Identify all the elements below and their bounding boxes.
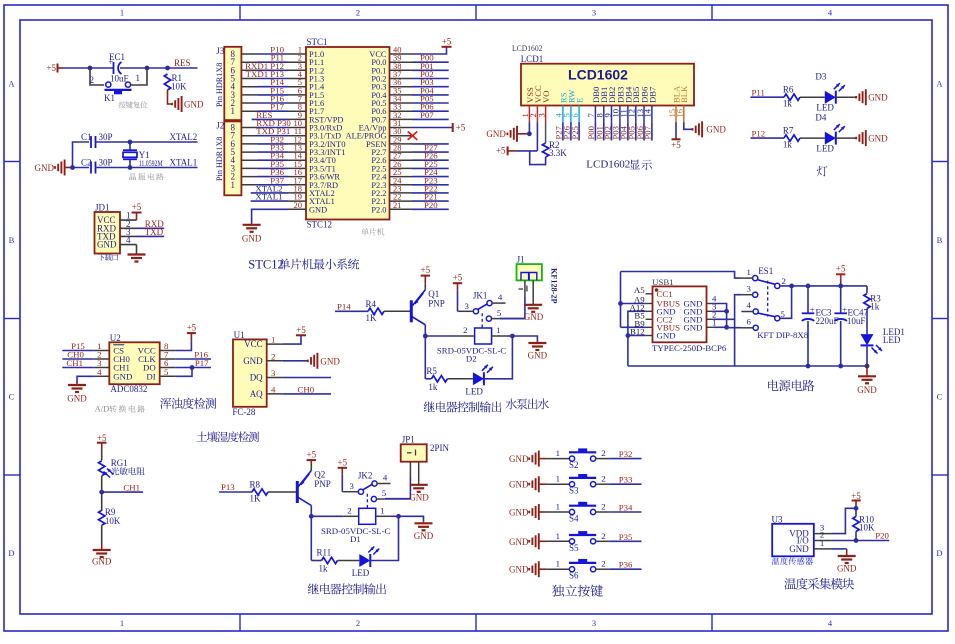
- wire R7 to LED: [800, 137, 825, 139]
- LCD module LCD1: [521, 54, 694, 106]
- svg-text:RG1: RG1: [111, 458, 128, 468]
- ground (U3): [846, 554, 848, 556]
- power port +5 (photoresistor): [97, 433, 107, 450]
- wire gnd to S4: [539, 511, 547, 513]
- svg-text:LCD1: LCD1: [521, 54, 544, 64]
- svg-text:GND: GND: [509, 537, 529, 547]
- svg-text:CC1: CC1: [657, 289, 673, 299]
- svg-text:+5: +5: [836, 263, 846, 273]
- net P35 wire: [596, 540, 610, 542]
- wire gnd to S6: [539, 568, 547, 570]
- wire BLK pin16 to ground: [684, 122, 692, 129]
- svg-text:+5: +5: [132, 202, 142, 212]
- wire JP1 pin1 to switch pin5: [409, 462, 411, 477]
- svg-text:2: 2: [601, 531, 605, 541]
- power port +5 (LCD VCC): [496, 146, 516, 156]
- ground (lamp D3): [856, 89, 888, 105]
- resistor R6 1k: [783, 85, 800, 109]
- svg-text:GND: GND: [657, 331, 676, 341]
- power port +5 (JD1 pin1): [132, 202, 142, 220]
- svg-text:2: 2: [90, 75, 95, 85]
- svg-text:USB1: USB1: [652, 277, 674, 287]
- svg-text:2: 2: [782, 276, 786, 286]
- wire/net TXD: [137, 235, 165, 237]
- svg-text:40: 40: [393, 45, 402, 55]
- net P15 wire: [62, 350, 93, 352]
- ground (J1 pin2): [532, 280, 534, 302]
- net P14 wire: [335, 310, 368, 312]
- svg-text:Q2: Q2: [314, 470, 325, 480]
- svg-text:C2: C2: [81, 158, 92, 168]
- photoresistor RG1 光敏电阻: [99, 458, 145, 478]
- svg-text:4: 4: [97, 367, 102, 377]
- svg-text:1: 1: [556, 474, 560, 484]
- svg-text:5: 5: [382, 488, 387, 498]
- label 温度传感器: [772, 558, 780, 565]
- capacitor EC1 10uF: [108, 52, 128, 84]
- bottom gnd rail: [628, 365, 867, 367]
- resistor R3 1k: [866, 286, 868, 293]
- svg-text:1k: 1k: [428, 382, 438, 392]
- svg-text:+5: +5: [296, 325, 306, 335]
- svg-text:+5: +5: [338, 457, 348, 467]
- net CH1 wire: [102, 491, 144, 493]
- svg-text:S4: S4: [569, 514, 579, 524]
- svg-text:2: 2: [356, 8, 360, 18]
- svg-text:CH1: CH1: [123, 482, 140, 492]
- title 继电器控制输出 (pump): [424, 402, 435, 413]
- ground (reset): [172, 96, 204, 112]
- svg-text:GND: GND: [868, 93, 888, 103]
- wire VBUS(A9) loop to ES1 pin1: [621, 303, 646, 305]
- switch JK1: [458, 290, 505, 328]
- svg-text:LCD1602: LCD1602: [568, 67, 628, 83]
- svg-text:GND: GND: [113, 371, 132, 381]
- svg-text:6: 6: [747, 317, 752, 327]
- svg-text:GND: GND: [524, 312, 544, 322]
- resistor R8 1K: [250, 480, 269, 504]
- svg-text:10uF: 10uF: [847, 316, 866, 326]
- svg-text:TYPEC-250D-BCP6: TYPEC-250D-BCP6: [652, 343, 727, 353]
- svg-text:JK2: JK2: [358, 471, 373, 481]
- net P32 wire: [596, 458, 610, 460]
- wire R8 to Q2 base: [268, 491, 297, 493]
- ground (key S5): [509, 533, 539, 549]
- LED D3: [815, 72, 844, 113]
- svg-text:P12: P12: [752, 129, 766, 139]
- power port +5 (Q2 emitter): [310, 464, 312, 471]
- wire node down to LED row: [310, 516, 312, 560]
- USB connector USB1 TYPEC-250D-BCP6: [630, 277, 727, 353]
- svg-text:GND: GND: [868, 134, 888, 144]
- ground (key S4): [509, 504, 539, 520]
- resistor R11 1k: [317, 548, 338, 574]
- wire switch pin5 to connector: [500, 318, 525, 320]
- svg-text:JK1: JK1: [473, 290, 488, 300]
- svg-text:PNP: PNP: [428, 298, 445, 308]
- svg-text:1k: 1k: [870, 301, 880, 311]
- switch JK2: [343, 471, 390, 508]
- transistor Q1 PNP: [411, 289, 445, 325]
- svg-text:DQ: DQ: [250, 373, 263, 383]
- title 水泵出水: [506, 398, 517, 409]
- title 浑浊度检测: [160, 398, 171, 409]
- power port +5 (MCU VCC pin40): [412, 48, 447, 55]
- svg-text:P07: P07: [420, 110, 434, 120]
- op IC U: STC12 MCU: [306, 37, 390, 230]
- svg-text:GND: GND: [509, 508, 529, 518]
- svg-text:KF128-2P: KF128-2P: [550, 268, 559, 303]
- svg-text:+5: +5: [671, 140, 681, 150]
- label 单片机: [361, 228, 368, 235]
- wire C2 to XTAL1: [96, 167, 198, 169]
- pushbutton S5: [569, 531, 596, 553]
- svg-text:3: 3: [536, 113, 546, 117]
- svg-text:11.0592M: 11.0592M: [139, 158, 163, 168]
- svg-text:R5: R5: [426, 366, 437, 376]
- wire top to ES1 pin1: [621, 272, 742, 279]
- svg-text:B: B: [9, 235, 15, 245]
- svg-text:GND: GND: [528, 351, 548, 361]
- ground (crystal): [35, 160, 73, 176]
- svg-text:Pin HDR1X8: Pin HDR1X8: [215, 63, 224, 107]
- power port +5 (U3): [851, 491, 861, 508]
- connector J3 Pin HDR1X8: [215, 46, 258, 120]
- svg-text:1: 1: [231, 180, 236, 190]
- svg-text:GND: GND: [509, 480, 529, 490]
- svg-text:A/D: A/D: [95, 404, 110, 414]
- svg-text:AQ: AQ: [250, 389, 263, 399]
- resistor R1 10K: [164, 73, 187, 92]
- net P36 wire: [596, 568, 610, 570]
- svg-text:RES: RES: [174, 58, 191, 68]
- wire R4 to Q1 base: [384, 310, 411, 312]
- ground (coil): [399, 516, 424, 521]
- wires USB right GNDs to vertical: [714, 304, 742, 328]
- svg-text:DI: DI: [146, 371, 155, 381]
- svg-text:3: 3: [592, 618, 596, 628]
- LCD pin stubs + numbers: [520, 106, 684, 123]
- svg-text:S3: S3: [569, 486, 579, 496]
- svg-text:C1: C1: [81, 132, 92, 142]
- svg-text:10K: 10K: [105, 516, 121, 526]
- ground (LCD BLK): [693, 121, 727, 137]
- LED LED: [465, 365, 493, 397]
- svg-text:JP1: JP1: [402, 435, 415, 445]
- svg-text:P33: P33: [619, 475, 633, 485]
- net RES wire: [252, 118, 288, 120]
- connector J1 KF128-2P: [517, 255, 559, 304]
- wire R2 bottom loop to +5 line: [530, 151, 546, 165]
- svg-text:E: E: [575, 98, 585, 103]
- wire LED to ground: [836, 137, 856, 139]
- wire U1 GND: [283, 360, 308, 362]
- svg-text:P20: P20: [424, 200, 438, 210]
- ground (key S6): [509, 561, 539, 577]
- svg-text:LCD1602: LCD1602: [586, 159, 630, 171]
- svg-text:4: 4: [271, 384, 276, 394]
- svg-text:R11: R11: [317, 548, 332, 558]
- title 土壤湿度检测: [197, 431, 208, 441]
- wire PSEN pin29: [412, 143, 449, 145]
- svg-text:P17: P17: [195, 358, 209, 368]
- resistor R7 1k: [783, 126, 800, 150]
- svg-text:GND: GND: [789, 544, 809, 554]
- svg-text:3: 3: [349, 481, 354, 491]
- wire +5 to RG1: [101, 450, 103, 460]
- svg-text:P11: P11: [752, 88, 765, 98]
- svg-text:D: D: [8, 548, 14, 558]
- svg-text:6: 6: [570, 113, 580, 118]
- wire vertical VBUS join: [620, 272, 622, 328]
- svg-text:A: A: [8, 79, 15, 89]
- svg-text:GND: GND: [35, 163, 55, 173]
- svg-text:A5: A5: [634, 285, 645, 295]
- svg-text:2: 2: [601, 448, 605, 458]
- wire to LED: [311, 560, 321, 562]
- svg-text:2: 2: [463, 325, 467, 335]
- net CH1 wire: [62, 367, 93, 369]
- wires P00-P07: [412, 53, 449, 120]
- ground (coil): [512, 336, 537, 341]
- svg-text:1: 1: [556, 559, 560, 569]
- crystal Y1 11.0592M: [123, 142, 163, 168]
- svg-text:1: 1: [820, 538, 824, 548]
- svg-text:5: 5: [164, 367, 169, 377]
- relay coil D2 SRD-05VDC-SL-C: [437, 325, 507, 364]
- wire C1 to XTAL2: [96, 141, 198, 143]
- svg-text:GND: GND: [409, 492, 429, 502]
- svg-text:2PIN: 2PIN: [430, 443, 450, 453]
- svg-text:VO: VO: [541, 91, 551, 103]
- wire node to coil pin2: [311, 515, 343, 517]
- svg-text:P2.0: P2.0: [371, 205, 386, 214]
- svg-text:1: 1: [136, 73, 141, 83]
- svg-text:1K: 1K: [366, 313, 378, 323]
- net P33 wire: [596, 483, 610, 485]
- svg-text:2: 2: [601, 559, 605, 569]
- svg-text:14: 14: [643, 108, 653, 117]
- wire gnd to S2: [539, 458, 547, 460]
- wire J1 pin1 to switch (via pin5 net): [524, 280, 526, 297]
- svg-text:+5: +5: [97, 433, 107, 443]
- svg-text:1: 1: [556, 531, 560, 541]
- svg-text:GND: GND: [683, 323, 702, 333]
- wire ES1 pin3 to gnd rail: [735, 295, 742, 366]
- svg-text:GND: GND: [486, 129, 506, 139]
- pushbutton S4: [569, 502, 596, 524]
- transistor Q2 PNP: [297, 470, 331, 506]
- sensor U1 FC-28: [232, 330, 283, 417]
- svg-text:P35: P35: [619, 532, 633, 542]
- svg-text:1k: 1k: [783, 99, 793, 109]
- wire VSS pin1 to ground: [528, 122, 530, 134]
- svg-text:+5: +5: [46, 63, 56, 73]
- svg-text:KFT DIP-8X8: KFT DIP-8X8: [757, 330, 809, 340]
- svg-text:R4: R4: [366, 299, 377, 309]
- svg-text:GND: GND: [309, 205, 327, 214]
- net P12 wire: [751, 137, 785, 139]
- net P34 wire: [596, 511, 610, 513]
- svg-text:BLK: BLK: [679, 85, 689, 103]
- svg-text:4: 4: [126, 235, 131, 245]
- capacitor C1 30P: [81, 132, 113, 148]
- svg-text:+5: +5: [307, 450, 317, 460]
- svg-text:1: 1: [271, 335, 275, 345]
- net P17 wire + DO/DI tie: [176, 367, 211, 369]
- svg-text:PNP: PNP: [314, 479, 331, 489]
- svg-text:4: 4: [383, 473, 388, 483]
- svg-text:LCD1602: LCD1602: [512, 43, 543, 53]
- wire R9 to gnd: [101, 525, 103, 543]
- svg-text:+5: +5: [442, 37, 452, 47]
- svg-text:2: 2: [271, 351, 275, 361]
- svg-text:STC12: STC12: [248, 257, 283, 271]
- net CH0 wire (AQ): [283, 393, 331, 395]
- svg-text:GND: GND: [67, 394, 87, 404]
- resistor R4 1K: [366, 299, 385, 323]
- wire RG1 to node: [101, 476, 103, 511]
- svg-text:STC1: STC1: [307, 37, 328, 47]
- svg-text:K1: K1: [104, 93, 115, 103]
- wire U3 GND: [831, 548, 846, 550]
- svg-text:20: 20: [294, 200, 303, 210]
- svg-text:1: 1: [120, 618, 124, 628]
- wire gnd to S3: [539, 483, 547, 485]
- net labels P27 P26 P25 / P00-P07 (rotated) + wires: [554, 122, 653, 140]
- svg-text:Pin HDR1X8: Pin HDR1X8: [215, 137, 224, 181]
- svg-text:D3: D3: [815, 72, 826, 82]
- svg-text:TXD: TXD: [145, 227, 164, 237]
- net P16 wire: [176, 358, 211, 360]
- svg-text:S6: S6: [569, 571, 579, 581]
- wire coil pin1 to junction: [506, 335, 512, 337]
- ADC U2 ADC0832: [94, 333, 176, 394]
- wire ES1 pin2/pin5 to +5 rail: [780, 285, 867, 287]
- resistor R9 10K: [99, 507, 121, 526]
- svg-text:30P: 30P: [99, 132, 113, 142]
- wire VDD to +5 node: [831, 508, 856, 533]
- svg-text:1: 1: [380, 505, 384, 515]
- svg-text:+5: +5: [187, 323, 197, 333]
- wires J3 to MCU pins 1-8: [245, 45, 288, 112]
- svg-text:ES1: ES1: [758, 266, 773, 276]
- svg-text:GND: GND: [97, 240, 117, 250]
- svg-text:FC-28: FC-28: [232, 407, 256, 417]
- svg-text:3: 3: [747, 283, 752, 293]
- svg-text:B: B: [937, 235, 943, 245]
- svg-text:ADC0832: ADC0832: [110, 384, 147, 394]
- LED LED1 (vertical): [866, 309, 868, 335]
- junction node: [88, 66, 93, 71]
- wire collector to node: [310, 506, 312, 517]
- no-connect X (pin30 ALE): [408, 132, 418, 140]
- wire EC1 to RES: [120, 67, 198, 69]
- svg-text:DB7: DB7: [647, 86, 657, 103]
- junction node: [423, 334, 428, 339]
- svg-text:4: 4: [747, 300, 752, 310]
- ground (power circuit): [866, 366, 868, 374]
- svg-text:GND: GND: [509, 454, 529, 464]
- svg-text:4: 4: [498, 292, 503, 302]
- wire MCU GND pin20: [252, 209, 288, 223]
- wire node down to LED row: [424, 336, 426, 379]
- svg-text:Q1: Q1: [428, 289, 439, 299]
- svg-text:1: 1: [556, 448, 560, 458]
- wire LED to junction: [370, 516, 398, 560]
- svg-text:1: 1: [747, 267, 751, 277]
- svg-text:P14: P14: [337, 301, 351, 311]
- svg-text:XTAL2: XTAL2: [170, 132, 198, 142]
- wire gnd up to C1: [73, 142, 90, 168]
- svg-text:D4: D4: [815, 113, 826, 123]
- resistor R2 3.3K: [545, 122, 547, 143]
- svg-text:P36: P36: [619, 560, 633, 570]
- svg-text:A: A: [936, 79, 943, 89]
- svg-text:GND: GND: [92, 557, 112, 567]
- svg-text:CH1: CH1: [66, 358, 83, 368]
- svg-text:P07: P07: [643, 125, 653, 139]
- wire to LED: [425, 378, 431, 380]
- svg-text:D1: D1: [350, 534, 361, 544]
- svg-text:3: 3: [592, 8, 596, 18]
- ground (JD1 pin4): [136, 245, 138, 253]
- svg-text:D: D: [936, 548, 942, 558]
- svg-text:1: 1: [556, 502, 560, 512]
- svg-text:1: 1: [496, 325, 500, 335]
- svg-text:+5: +5: [456, 123, 466, 133]
- wire LED to ground: [836, 96, 856, 98]
- wire +5 to VCC pin2: [516, 150, 537, 152]
- wire node to coil pin2: [425, 335, 459, 337]
- label A/D转换电路: [95, 404, 145, 414]
- svg-text:+5: +5: [496, 146, 506, 156]
- svg-text:+5: +5: [453, 273, 463, 283]
- svg-text:LED: LED: [816, 103, 834, 113]
- power port +5 (reset): [46, 63, 64, 73]
- svg-text:10K: 10K: [859, 523, 875, 533]
- svg-text:P25: P25: [570, 126, 580, 139]
- wire K1 to junction: [131, 68, 147, 85]
- power port +5 (U1 VCC): [283, 335, 301, 344]
- temperature sensor U3: [772, 514, 832, 556]
- resistor R5 1k: [426, 366, 447, 392]
- svg-text:2: 2: [356, 618, 360, 628]
- wire USB pin2 row: [714, 318, 734, 320]
- connector JD1: [95, 203, 137, 254]
- ground (JP1 pin2): [418, 462, 420, 483]
- svg-text:3: 3: [464, 301, 469, 311]
- pushbutton S2: [569, 448, 596, 470]
- svg-text:LED: LED: [352, 568, 370, 578]
- MCU left pins 1-20: [288, 45, 306, 210]
- svg-text:GND: GND: [243, 356, 263, 366]
- ground (key S3): [509, 476, 539, 492]
- wire LED to junction: [484, 336, 513, 379]
- svg-text:XTAL1: XTAL1: [255, 192, 282, 202]
- svg-text:LED: LED: [816, 144, 834, 154]
- capacitor EC3 220uF: [806, 284, 811, 289]
- svg-text:S5: S5: [569, 543, 579, 553]
- wire switch pin5 to connector: [385, 498, 411, 500]
- svg-text:XTAL1: XTAL1: [170, 158, 198, 168]
- svg-text:C: C: [937, 392, 943, 402]
- power port +5 (LCD BLA pin15, inverted): [675, 122, 677, 137]
- wire A12/B12 gnd rail: [628, 311, 646, 366]
- ground (U1): [308, 353, 341, 369]
- wire gnd to C2: [73, 167, 90, 169]
- svg-text:1: 1: [120, 8, 124, 18]
